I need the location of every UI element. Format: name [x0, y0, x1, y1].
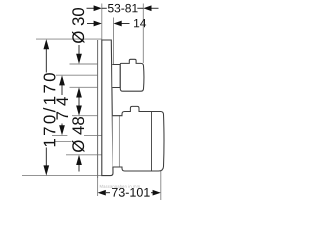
watermark — [100, 185, 140, 189]
wire: wall line — [97, 40, 99, 178]
label 73-101 — [112, 188, 150, 197]
arrow down 170/170 — [43, 165, 49, 175]
arrow down 74 — [59, 125, 65, 135]
arrow down to O30 top line — [76, 54, 82, 64]
label 53-81 — [108, 4, 138, 13]
wire: 74 bottom target line — [52, 134, 102, 136]
wire: plate front face vertical extension (14 right) — [113, 18, 115, 65]
label 170/170 — [43, 73, 55, 146]
wire: lower knob face vertical extension (73-101 right) — [160, 165, 162, 200]
arrow right of 14 — [114, 21, 122, 27]
node: upper handle knob — [120, 59, 144, 91]
dimension O30 tails — [78, 45, 80, 106]
arrow up 170/170 — [43, 39, 49, 49]
arrow right 73-101 — [153, 190, 161, 196]
label O 30 — [72, 8, 84, 43]
dimension 14 tails — [87, 23, 130, 25]
wire: lower knob ridge line — [151, 112, 153, 171]
arrow right of 53-81 — [143, 5, 151, 11]
wire: wall extension down (73-101 left) — [97, 178, 99, 196]
node: lower handle knob — [120, 106, 165, 171]
arrow left of 14 — [94, 21, 102, 27]
node: lower sleeve — [113, 116, 120, 167]
arrow up to O30 bottom line — [76, 87, 82, 97]
arrow left 73-101 — [98, 190, 106, 196]
arrow down to O48 top line — [76, 106, 82, 116]
wire: upper knob bottom extension (O30 bottom) — [70, 86, 98, 88]
arrow left of 53-81 — [94, 5, 102, 11]
label 14 — [134, 19, 146, 27]
arrow up 74 — [59, 75, 65, 85]
dimension O48 bottom tail — [78, 165, 80, 172]
wire: lower sleeve top extension (O48 top) — [72, 115, 98, 117]
dimension 53-81 tails — [87, 7, 159, 9]
wire: left vertical extension for top dims — [101, 4, 103, 40]
dimension 74 line segments — [61, 85, 63, 130]
wire: lower knob axis stub — [54, 141, 72, 143]
node: upper sleeve — [112, 65, 120, 88]
wire: upper knob face vertical extension (53-81 right) — [142, 4, 144, 64]
node: escutcheon plate (side profile) — [102, 40, 113, 176]
wire: upper knob axis extension (74 top) — [56, 74, 98, 76]
wire: extension line plate bottom (for 170/170) — [22, 175, 102, 177]
wire: extension line plate top (for 170/170) — [36, 38, 102, 40]
wire: upper knob top extension (O30 top) — [70, 63, 98, 65]
label O 48 — [72, 117, 84, 152]
dimension 73-101 tails — [106, 192, 153, 194]
wire: lower sleeve bottom extension (O48 bottom) — [66, 154, 102, 156]
dimension 170/170 line segments — [45, 49, 47, 167]
label 74 — [56, 97, 68, 119]
arrow up to O48 bottom line — [76, 155, 82, 165]
